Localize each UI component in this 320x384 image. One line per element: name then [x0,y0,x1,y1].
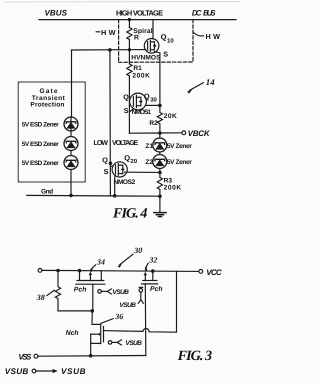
junction dot 36 source [89,354,93,358]
wire Q10 drain to bus [152,20,154,39]
transistor Q20 NMOS2 [112,162,127,177]
annotation VSUB at 36 [108,340,121,345]
wire VBUS bus rail [39,19,236,21]
wire R1 top [128,50,130,64]
junction dot VBCK node [158,131,162,135]
transistor Q30 NMOS1 [130,93,147,111]
resistor R2 20K [157,105,162,133]
resistor Spiral R [127,28,132,40]
svg-text:5V ESD Zener: 5V ESD Zener [22,141,60,148]
wire Z2 to R3 node [159,169,161,173]
svg-text:NMOS2: NMOS2 [114,179,136,186]
svg-text:S: S [124,106,129,115]
wire gate line down to zener chain [71,50,73,117]
wire 34 gate drop [92,284,94,311]
wire 36 gate to VCC with hop [104,271,177,332]
wire top rail FIG3 [42,270,199,271]
svg-text:5V ESD Zener: 5V ESD Zener [22,121,60,128]
junction dot R38 top [56,269,60,273]
junction dot chain/rail [69,194,73,198]
junction dot spiral R on bus [128,18,131,21]
wire spiral R to gate line [128,40,130,50]
resistor R3 200K [157,173,162,197]
HW label left [96,31,99,33]
Gate Transient Protection box [18,82,85,182]
resistor 38 [55,271,92,311]
wire Q20 gate stub [110,165,113,167]
zener D1 [64,117,78,131]
HV region dashed box right edge [192,20,194,62]
svg-text:VSUB: VSUB [119,302,136,309]
wire Q10 source to R2 chain [154,52,160,106]
svg-text:NMOS1: NMOS1 [132,109,152,116]
HV region dashed box left edge [118,20,120,63]
svg-text:200K: 200K [132,72,150,79]
svg-text:Gnd: Gnd [41,188,53,195]
ground rail FIG4 [27,194,160,197]
svg-text:5V Zener: 5V Zener [167,159,192,166]
junction dot Q20 source/rail [113,194,117,198]
HV region dashed box bottom edge [119,61,193,63]
zener Z1 [153,133,167,152]
svg-text:VSUB: VSUB [112,289,129,296]
wire 32 gate drop to VSS rail [144,284,147,356]
svg-text:R3: R3 [164,178,173,185]
svg-text:VCC: VCC [206,268,222,277]
transistor 34 Pch [76,271,105,285]
svg-text:Q: Q [124,153,130,162]
svg-text:Q: Q [123,93,129,102]
svg-text:VSUB: VSUB [61,367,86,376]
svg-text:34: 34 [96,258,105,267]
zener D3 [64,156,78,170]
svg-text:Z1: Z1 [145,143,153,150]
svg-text:30: 30 [133,246,142,255]
svg-text:Q: Q [144,92,150,101]
svg-text:HW: HW [206,32,221,41]
svg-text:32: 32 [148,255,157,264]
svg-text:20: 20 [130,158,137,165]
svg-text:BUS: BUS [203,9,216,18]
annotation VSUB at 34 [98,289,112,294]
annotation VSUB at 32 [138,287,143,303]
svg-text:DC: DC [192,9,202,18]
junction dot at Q20 gate [109,161,113,165]
svg-text:Z2: Z2 [145,159,153,166]
svg-text:VBUS: VBUS [45,9,68,18]
junction dot gate node [91,309,95,313]
svg-text:Protection: Protection [30,102,64,109]
svg-text:S: S [163,50,168,59]
wire Z1 to Z2 [159,152,161,155]
svg-text:VBCK: VBCK [188,129,211,138]
junction dot Q30 drain [158,104,162,108]
transistor Q10 HVNMOS [144,39,159,54]
svg-text:Pch: Pch [150,286,163,293]
junction dot R3 top node [158,171,162,175]
svg-text:200K: 200K [164,185,182,192]
svg-text:FIG. 4: FIG. 4 [112,206,148,222]
svg-text:R: R [134,34,139,41]
svg-text:30: 30 [150,97,157,104]
svg-text:R1: R1 [133,65,142,72]
wire gate line [72,49,146,51]
terminal VCC [199,270,203,274]
svg-text:S: S [104,167,109,176]
svg-text:LOW: LOW [94,140,109,147]
ground symbol [154,196,166,216]
wire Q30 drain to chain [146,104,160,106]
svg-text:14: 14 [206,77,215,87]
wire D3 to ground rail [70,170,72,196]
wire bus to spiral R [128,20,130,28]
wire between D1 D2 [70,131,72,137]
svg-text:5V ESD Zener: 5V ESD Zener [22,160,60,167]
svg-text:36: 36 [114,312,123,321]
zener Z2 [153,155,167,169]
svg-text:20K: 20K [164,113,177,120]
transistor 32 Pch [142,271,158,284]
svg-text:38: 38 [36,293,45,302]
svg-text:VSUB: VSUB [5,367,29,376]
junction dot R3/rail [158,194,162,198]
terminal VBCK [182,131,186,135]
scan artifact top line [4,1,240,4]
junction dot gate line to LV branch [108,48,112,52]
svg-text:Pch: Pch [74,287,87,294]
terminal VSS [34,354,38,358]
svg-text:VSS: VSS [18,353,32,362]
svg-text:Q: Q [102,156,108,165]
wire between D2 D3 [70,151,72,156]
svg-text:FIG. 3: FIG. 3 [177,348,213,364]
svg-text:10: 10 [167,37,174,44]
wire VSS rail [38,355,146,358]
transistor 36 Nch [91,311,104,356]
zener D2 [64,137,78,151]
svg-text:HVNMOS: HVNMOS [131,54,161,61]
svg-text:Nch: Nch [66,330,79,337]
svg-text:Q: Q [161,33,167,42]
svg-text:VSUB: VSUB [125,340,142,347]
wire Q20 source to rail [114,176,117,196]
wire LV gate branch down [109,50,112,196]
terminal input FIG3 [38,269,42,273]
junction dot gate line / spiral R / R1 [128,48,131,51]
svg-text:HW: HW [101,28,116,37]
wire R1 down past Q30 gate to source node [128,76,130,133]
resistor R1 200K [127,64,132,76]
wire Q20 drain to R3 node [125,171,160,173]
wire to VBCK terminal [160,132,182,134]
junction dot T34 left leg [78,269,82,273]
svg-text:HIGH VOLTAGE: HIGH VOLTAGE [116,8,163,17]
svg-text:5V Zener: 5V Zener [167,143,192,150]
junction dot VCC node [151,269,155,273]
wire Q30 source node to VBCK node [129,132,160,134]
svg-text:R2: R2 [149,120,158,127]
svg-text:VOLTAGE: VOLTAGE [112,140,139,147]
HW label right with leader [193,33,203,36]
